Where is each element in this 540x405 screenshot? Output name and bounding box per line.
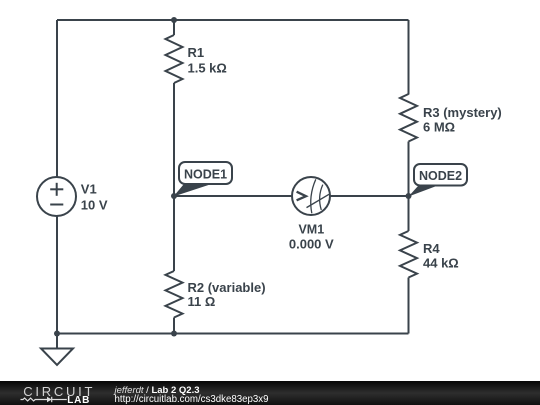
NODE2 flag tail: [409, 186, 437, 197]
voltage source V1 circle: [37, 177, 76, 216]
ground symbol: [41, 334, 73, 366]
voltmeter VM1 circle: [292, 177, 330, 215]
V1 plus sign: [50, 183, 63, 196]
wire NODE1 to VM1 left terminal: [174, 195, 292, 197]
V1 minus sign: [50, 204, 63, 206]
wire right vertical R3 top lead: [408, 20, 410, 95]
junction dot NODE1: [171, 193, 177, 199]
svg-text:http://circuitlab.com/cs3dke83: http://circuitlab.com/cs3dke83ep3x9: [115, 394, 269, 405]
footer bar: [0, 381, 540, 405]
svg-text:NODE1: NODE1: [184, 167, 227, 181]
wire R1 bottom lead down to NODE1: [173, 83, 175, 196]
svg-text:1.5 kΩ: 1.5 kΩ: [188, 60, 227, 75]
svg-text:44 kΩ: 44 kΩ: [423, 256, 459, 271]
footer logo schematic glyph (resistor + diode): [21, 397, 67, 403]
VM1 meter arc right: [320, 185, 323, 210]
svg-text:0.000 V: 0.000 V: [289, 236, 334, 251]
resistor R3 body: [400, 94, 417, 142]
svg-text:V1: V1: [81, 182, 97, 197]
wire left vertical lower (V1 bottom lead): [56, 216, 58, 334]
wire NODE1 down to R2: [173, 196, 175, 271]
junction dot top (R1/top wire): [171, 17, 177, 23]
resistor R2 body: [166, 271, 183, 318]
wire bottom horizontal: [57, 333, 409, 335]
svg-text:R2 (variable): R2 (variable): [188, 280, 266, 295]
node flag NODE2 box: [414, 164, 467, 186]
svg-text:R3 (mystery): R3 (mystery): [423, 105, 502, 120]
svg-text:VM1: VM1: [298, 222, 324, 236]
wire left vertical upper (V1 top lead): [56, 20, 58, 178]
junction dot ground: [54, 331, 60, 337]
wire R1 top lead: [173, 20, 175, 35]
VM1 chevron mark: [297, 192, 306, 201]
junction dot NODE2: [406, 193, 412, 199]
svg-text:R1: R1: [188, 45, 205, 60]
junction dot bottom (R2/bottom wire): [171, 331, 177, 337]
VM1 meter arc left: [311, 179, 316, 213]
VM1 needle: [307, 194, 330, 207]
wire top horizontal: [57, 19, 409, 21]
node flag NODE1 box: [179, 162, 232, 184]
NODE1 flag tail: [174, 185, 211, 197]
wire R2 bottom lead: [173, 318, 175, 334]
svg-text:R4: R4: [423, 241, 440, 256]
resistor R1 body: [166, 35, 183, 83]
wire VM1 right terminal to NODE2: [330, 195, 409, 197]
svg-text:11 Ω: 11 Ω: [188, 294, 216, 309]
wire right vertical R4 bottom lead: [408, 278, 410, 334]
svg-text:10 V: 10 V: [81, 198, 108, 213]
resistor R4 body: [400, 231, 417, 278]
svg-text:6 MΩ: 6 MΩ: [423, 120, 455, 135]
svg-text:LAB: LAB: [67, 395, 90, 405]
svg-text:NODE2: NODE2: [419, 169, 462, 183]
wire right vertical R3 to NODE2 to R4: [408, 142, 410, 232]
